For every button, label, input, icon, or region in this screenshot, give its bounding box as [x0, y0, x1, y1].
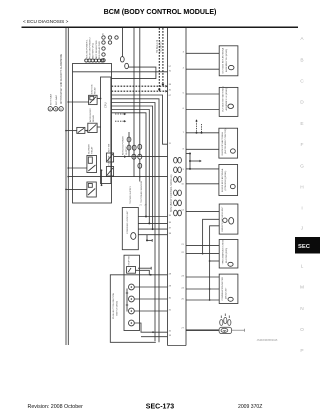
wire: steering lock pin 4 to BCM	[138, 234, 167, 236]
svg-text:L: L	[301, 264, 304, 270]
outside key antenna LH connector oval	[228, 104, 234, 108]
junction dot on wire 133	[196, 132, 198, 134]
svg-text:OUTSIDE KEY ANTENNA: OUTSIDE KEY ANTENNA	[222, 47, 225, 73]
wire: BCM to transponder key (thick)	[186, 329, 219, 331]
wire: bus to K4	[66, 188, 87, 190]
wire: BCM to antenna LH pin 1	[186, 93, 219, 95]
arrowhead CAN-H at BCM	[165, 85, 167, 88]
junction bus1	[145, 216, 147, 218]
wire: vertical bus from top (keyless)	[133, 28, 135, 177]
wire: vertical feed to connector F3	[122, 28, 124, 57]
svg-text:ASSEMBLY RH (M143): ASSEMBLY RH (M143)	[225, 49, 228, 72]
push contact 2	[129, 296, 135, 302]
svg-text:C: C	[60, 107, 62, 111]
wire: BCM to console antenna pin 2	[186, 183, 219, 185]
svg-text:RELAY: RELAY	[92, 114, 95, 122]
wire: BCM to receiver pin 1	[186, 210, 219, 212]
stop lamp switch plunger	[128, 268, 131, 272]
key switch S1 slash	[107, 154, 113, 161]
push contact 3	[129, 308, 135, 314]
relay K3	[87, 156, 97, 173]
indicator tick 2	[126, 304, 128, 306]
svg-text:IGN RELAY PWR: IGN RELAY PWR	[98, 41, 101, 59]
junction at antenna wire	[139, 176, 141, 178]
svg-text:KEYLESS POWER: KEYLESS POWER	[123, 136, 125, 155]
relay K1 (ignition relay)	[89, 95, 98, 104]
wire: push sw pin1 to BCM	[134, 286, 167, 288]
junction V2 end	[209, 299, 211, 301]
contact indicator column	[126, 289, 128, 312]
junction bus2	[148, 222, 150, 224]
junction on bus at K1	[67, 101, 69, 103]
wire: push sw pin3 to BCM	[134, 310, 167, 312]
legend circle B	[54, 107, 58, 111]
svg-text:SUPPLY: SUPPLY	[126, 146, 128, 155]
push contact 4	[129, 320, 135, 326]
key switch S2 slash	[107, 168, 113, 175]
wire: bus to relay K1	[68, 101, 88, 103]
svg-text:IGNITION: IGNITION	[91, 84, 93, 94]
box inside key antenna (instrument)	[219, 128, 238, 158]
relay K1 contact	[90, 97, 97, 104]
wire: BCM to antenna RH pin 1	[186, 52, 219, 54]
wire: F2 to K2	[85, 130, 88, 132]
inside key antenna connector oval	[231, 149, 236, 153]
svg-text:A: A	[49, 107, 51, 111]
wire: BCM to meter pin 3	[186, 299, 219, 301]
keyless power wire vertical	[128, 132, 130, 157]
relay K4 coil	[88, 184, 92, 188]
wire: key switch row with arrow	[114, 156, 168, 158]
key switch S1 (hatched box)	[106, 153, 113, 162]
junction V2 dot	[209, 260, 211, 262]
wire: lower push sw to BCM	[141, 336, 168, 338]
relay K3 coil	[88, 157, 92, 163]
wire: vertical bus from top (antenna)	[139, 28, 141, 157]
continuation stub wire	[138, 267, 151, 270]
wire: K2 to CPU	[97, 126, 101, 128]
relay K2 contact	[89, 124, 96, 131]
svg-text:M: M	[300, 285, 304, 291]
connector pin label block (rotated text rows, top left)	[86, 33, 104, 59]
wire: BCM to antenna LH pin 2	[186, 109, 219, 111]
svg-text:KEY SW: KEY SW	[108, 144, 110, 152]
connector oval keyless 2	[127, 145, 131, 150]
arrowhead on dashed wire 1	[158, 89, 161, 92]
svg-text:C: C	[300, 79, 304, 85]
wire: push sw pin4 to BCM	[134, 323, 167, 332]
svg-text:ASSEMBLY LH (M142): ASSEMBLY LH (M142)	[225, 88, 228, 111]
outside key antenna RH connector oval	[228, 65, 234, 69]
push contact 2 pin	[131, 298, 133, 300]
arrow on key switch wire	[124, 155, 126, 158]
wire fan: CPU outputs turning down (1)	[112, 95, 168, 144]
svg-text:B: B	[55, 107, 57, 111]
connector oval on key wire 2	[138, 154, 142, 159]
steering lock unit box	[122, 208, 138, 250]
svg-text:SEC-173: SEC-173	[146, 403, 175, 410]
svg-text:SWITCH (M50): SWITCH (M50)	[117, 301, 119, 316]
wire: K1 to CPU	[97, 98, 101, 100]
wire: key to antenna stub (thin)	[232, 329, 245, 331]
junction dot upper	[101, 169, 103, 171]
wire: BCM to inside antenna pin 2	[186, 148, 219, 150]
svg-text:SEC: SEC	[298, 244, 311, 250]
svg-text:RELAY: RELAY	[91, 146, 94, 154]
svg-text:(CONSOLE) (M141): (CONSOLE) (M141)	[225, 171, 227, 191]
wire: bus to fuse F2	[66, 130, 77, 132]
junction on bus at K3	[67, 167, 69, 169]
link bar dots at BCM right	[186, 153, 219, 170]
legend circle C	[59, 107, 63, 111]
svg-text:BUZZER (M55): BUZZER (M55)	[226, 248, 228, 263]
wire fan (6)	[112, 113, 147, 217]
key switch S2 (hatched box)	[106, 167, 113, 177]
wire: coupler V1 into receiver	[203, 219, 220, 253]
box outside key antenna LH	[219, 87, 238, 116]
arrow stub to power window 1	[115, 113, 126, 115]
svg-text:CPU: CPU	[104, 102, 108, 108]
svg-text:P: P	[300, 348, 303, 354]
BCM U1 (body control module, page-tall strip)	[168, 28, 187, 346]
indicator tick 1	[126, 292, 128, 294]
BCM pin number labels right edge	[181, 52, 184, 330]
wire: steering lock pin 3 to BCM	[138, 228, 167, 230]
connector oval on vertical antenna wire	[138, 163, 142, 168]
wire: push sw pin2 to BCM	[134, 298, 167, 300]
connector oval F3	[120, 57, 124, 62]
svg-text:INSIDE KEY ANTENNA: INSIDE KEY ANTENNA	[221, 132, 224, 156]
svg-text:PUSH-BUTTON IGNITION: PUSH-BUTTON IGNITION	[113, 292, 115, 319]
combination meter connector oval	[228, 297, 233, 301]
junction at K1 right	[100, 98, 102, 100]
svg-text:O: O	[300, 327, 304, 333]
fuse F2 element	[78, 128, 84, 132]
arrowhead on dashed wire 2	[162, 84, 165, 87]
connector oval M77	[125, 63, 129, 68]
svg-text:TO POWER WINDOW: TO POWER WINDOW	[141, 180, 143, 203]
svg-text:ACC RELAY PWR: ACC RELAY PWR	[95, 40, 98, 58]
second dashed stub	[201, 124, 203, 134]
svg-text:JSMWM0583GB: JSMWM0583GB	[257, 338, 278, 342]
svg-text:BATTERY (F/L): BATTERY (F/L)	[92, 43, 95, 58]
steering lock connector oval	[131, 233, 136, 240]
push contact 1	[129, 284, 135, 290]
wire: BCM to lamp pin 1	[186, 245, 219, 247]
box remote keyless entry receiver	[219, 204, 238, 234]
transponder key symbol	[219, 314, 232, 334]
svg-text:2009 370Z: 2009 370Z	[238, 404, 262, 410]
svg-text:F: F	[301, 142, 304, 148]
push contact 3 pin	[131, 310, 133, 312]
svg-text:INSIDE KEY ANTENNA: INSIDE KEY ANTENNA	[221, 168, 224, 192]
svg-text:PUSH SW: PUSH SW	[108, 156, 110, 166]
wire fan (2)	[112, 99, 160, 342]
svg-text:TO LAN-30: TO LAN-30	[160, 41, 163, 53]
svg-text:G: G	[300, 164, 304, 170]
svg-text:WITH BCM SET AND SECURITY ALAR: WITH BCM SET AND SECURITY ALARM MODE	[60, 53, 63, 104]
connector oval on key wire 1	[132, 154, 136, 159]
svg-text:< ECU DIAGNOSIS >: < ECU DIAGNOSIS >	[23, 19, 69, 24]
svg-text:I: I	[301, 206, 302, 212]
wire: BCM to antenna RH pin 2	[186, 68, 219, 70]
svg-text:(M53) UNIT: (M53) UNIT	[225, 287, 227, 299]
svg-text:N: N	[300, 306, 304, 312]
wire: BCM to inside antenna pin 1	[186, 132, 219, 134]
receiver antenna symbol 2	[229, 218, 234, 225]
junction on bus at F2	[65, 130, 67, 132]
svg-text:D: D	[300, 100, 304, 106]
box inside key antenna (console)	[219, 165, 238, 196]
dashed CAN wire to SEC (vertical 1)	[158, 28, 160, 89]
wire: bus to K3	[68, 167, 87, 169]
console antenna connector oval	[230, 184, 235, 188]
CPU box inside BCM power section	[101, 77, 111, 184]
junction on stop lamp wire	[150, 274, 152, 276]
junction on bus at K4	[65, 189, 67, 191]
junction at F2 right	[86, 130, 88, 132]
relay K1 coil	[90, 96, 94, 100]
fuse F2	[77, 127, 85, 133]
connector oval mid 2	[138, 144, 142, 149]
relay K4 contact	[88, 189, 95, 196]
wire: fuse block row to BCM pin 70	[73, 71, 168, 73]
junction on bus ground	[67, 176, 69, 178]
receiver antenna symbol 1	[223, 218, 227, 222]
svg-text:RELAY: RELAY	[94, 87, 97, 95]
svg-text:COMBINATION METER: COMBINATION METER	[221, 277, 224, 301]
svg-text:STEERING LOCK UNIT: STEERING LOCK UNIT	[127, 210, 129, 234]
BCM pin number labels left edge	[169, 66, 172, 337]
BCM connector ovals (paired rows)	[174, 157, 182, 215]
relay K4	[87, 182, 96, 197]
steering lock aux pin wire	[146, 235, 152, 242]
wire: wrap around push box	[110, 275, 156, 343]
steering pin tiny labels	[140, 204, 148, 206]
svg-text:TO PWR SUPPLY: TO PWR SUPPLY	[130, 186, 132, 204]
box combination meter	[219, 274, 238, 303]
wire fan (3)	[112, 103, 156, 342]
wire: coupler V2 into receiver	[210, 226, 220, 300]
stub V2 to box	[210, 260, 220, 262]
svg-text:TO SEC-172: TO SEC-172	[157, 39, 159, 53]
wire: connector to BCM pin 57	[112, 67, 156, 79]
stop lamp switch sub-box	[127, 267, 136, 274]
svg-text:WITH NAVI: WITH NAVI	[49, 93, 52, 105]
svg-text:ACCESSORY: ACCESSORY	[89, 108, 92, 122]
stub below junction	[139, 177, 141, 182]
svg-text:B: B	[300, 58, 303, 64]
svg-text:(INSTRUMENT CENTER): (INSTRUMENT CENTER)	[225, 128, 227, 154]
wire fan (5)	[112, 110, 150, 224]
junction at pin4 wire	[152, 331, 154, 333]
junction bus3	[152, 228, 154, 230]
dashed CAN-H wire into BCM pin	[112, 85, 166, 87]
svg-text:TPMS WARNING CHECK: TPMS WARNING CHECK	[222, 239, 225, 265]
key wire end tick	[244, 329, 246, 332]
relay K3 contact	[88, 165, 95, 171]
vertical link on CPU edge	[101, 170, 103, 185]
SEC section tab	[295, 237, 320, 254]
dashed stub up from wire 133	[195, 119, 197, 133]
pin circle row under labels	[85, 59, 104, 62]
svg-text:OUTSIDE KEY ANTENNA: OUTSIDE KEY ANTENNA	[222, 86, 225, 112]
svg-text:E: E	[300, 121, 303, 127]
header rule	[22, 26, 299, 28]
connector oval mid 1	[132, 145, 136, 150]
legend circle A	[48, 107, 52, 111]
op bus wire left pair (battery feed)	[66, 28, 68, 345]
arrowhead CAN-L at BCM	[165, 90, 167, 93]
junction V2 on meter wire	[209, 288, 211, 290]
junction dot lower	[101, 184, 103, 186]
dashed CAN-L wire into BCM pin	[112, 90, 166, 92]
push contact 4 pin	[131, 322, 133, 324]
wire: BCM to lamp pin 2	[186, 253, 219, 255]
svg-text:H: H	[300, 185, 304, 191]
fuse block outer box	[73, 64, 112, 204]
push contact 1 pin	[131, 286, 133, 288]
vertical wire oval link	[139, 159, 141, 177]
junction V1 on lamp wire	[202, 253, 204, 255]
arrow stub to power window 2	[115, 120, 126, 122]
wire: steering lock pin 2 to BCM	[138, 222, 167, 224]
connector oval keyless 1	[127, 137, 131, 142]
push-button ignition switch box	[124, 255, 140, 330]
wire: BCM to meter pin 2	[186, 288, 219, 290]
svg-text:Revision: 2008 October: Revision: 2008 October	[28, 404, 84, 410]
wire: stop lamp switch to BCM	[136, 270, 168, 275]
wire: BCM to meter pin 1	[186, 276, 219, 278]
pin circle column (pins 1-4)	[102, 36, 118, 62]
long ground wire across fuse block	[68, 176, 167, 178]
svg-text:IGN SW POWER 1: IGN SW POWER 1	[86, 39, 88, 59]
svg-text:BLOWER: BLOWER	[88, 144, 90, 154]
wire fan (4)	[112, 106, 153, 229]
svg-text:W/O NAVI: W/O NAVI	[55, 95, 58, 105]
relay K2	[88, 123, 97, 132]
box outside key antenna RH	[219, 46, 238, 76]
svg-text:STOP SW: STOP SW	[129, 256, 131, 265]
svg-text:BCM (BODY CONTROL MODULE): BCM (BODY CONTROL MODULE)	[104, 8, 217, 16]
svg-text:BCM (BODY CONTROL MODULE): BCM (BODY CONTROL MODULE)	[170, 174, 173, 212]
dashed CAN wire to SEC (vertical 2)	[162, 28, 164, 84]
security lamp connector oval	[228, 262, 233, 266]
wire: steering lock pin 1 to BCM	[138, 216, 167, 218]
box security indicator lamp	[219, 240, 238, 269]
svg-text:PUSH SW POWER 2: PUSH SW POWER 2	[90, 37, 92, 59]
